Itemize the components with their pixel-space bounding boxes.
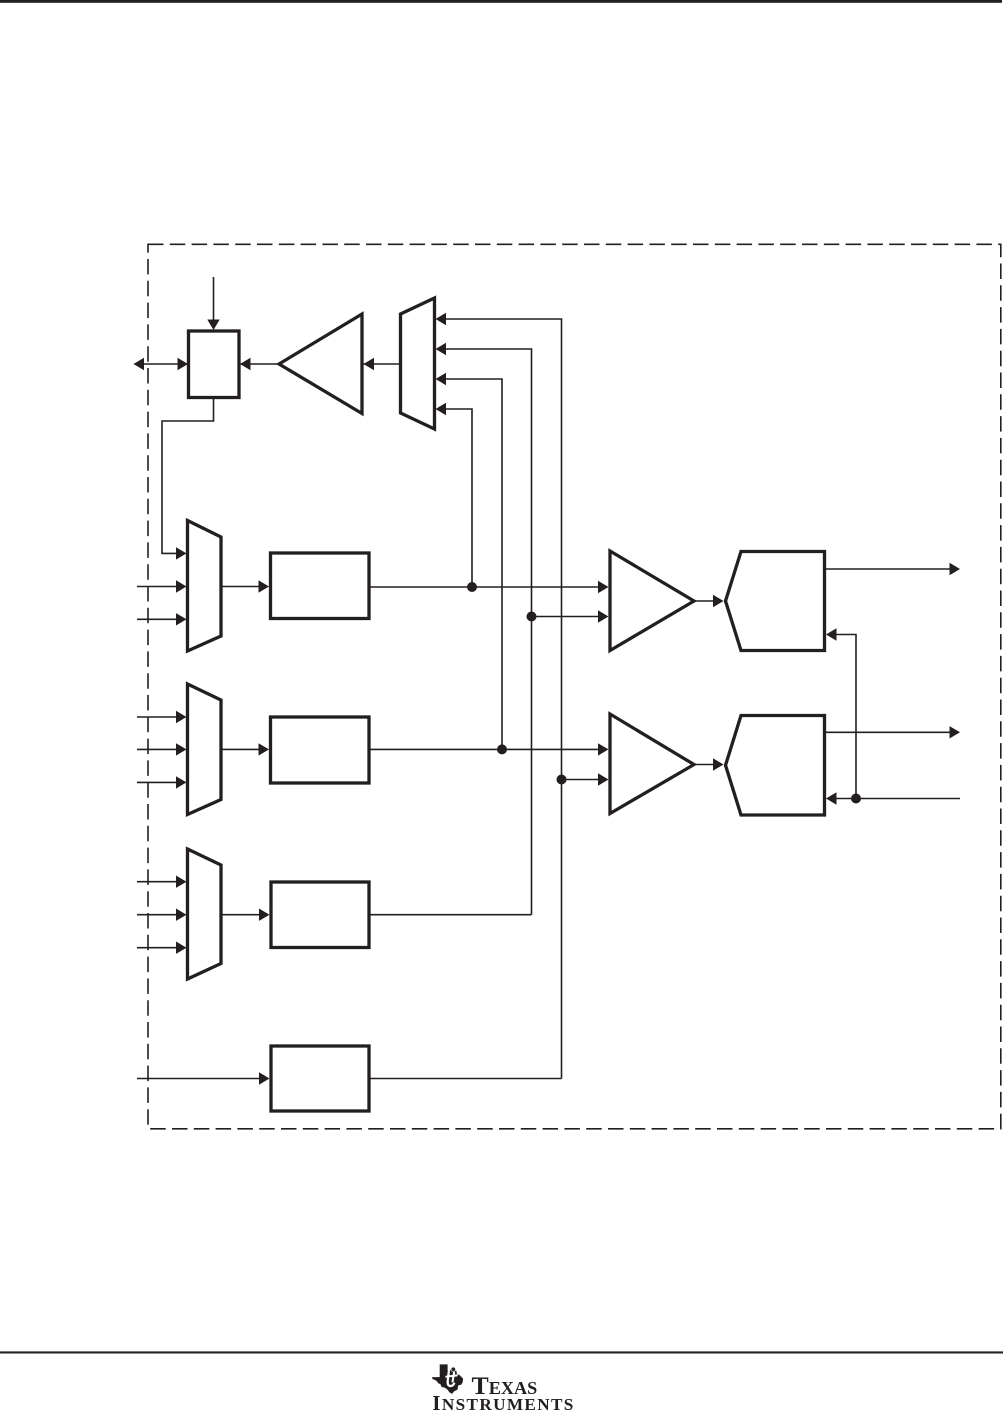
svg-text:INSTRUMENTS: INSTRUMENTS bbox=[432, 1391, 575, 1414]
